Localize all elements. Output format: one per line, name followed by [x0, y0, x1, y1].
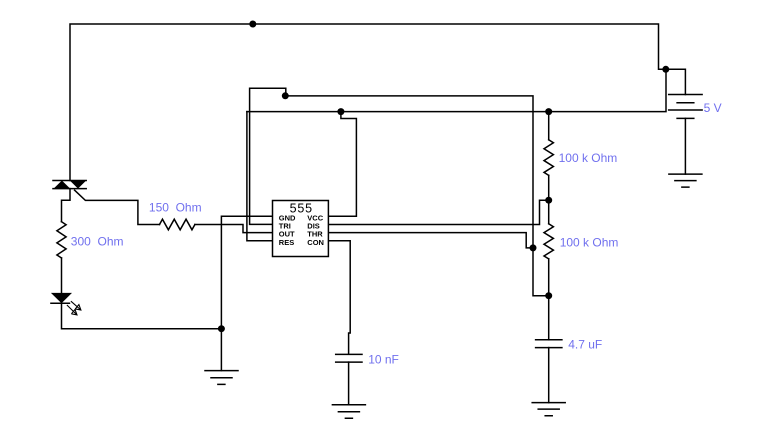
svg-text:CON: CON: [307, 238, 324, 247]
wire triac MT1 to 300 Ohm: [62, 189, 71, 222]
triac Q1 triangles: [54, 181, 87, 189]
junction dot VCC on rail: [337, 108, 344, 115]
wire RES pin to +5V rail: [247, 112, 273, 241]
svg-text:150 Ohm: 150 Ohm: [149, 201, 202, 215]
svg-text:4.7 uF: 4.7 uF: [568, 337, 602, 351]
junction dot THR-TRI node: [530, 244, 537, 251]
capacitor C1 10 nF: [336, 354, 362, 362]
resistor R 150 Ohm: [160, 219, 195, 230]
svg-text:300 Ohm: 300 Ohm: [71, 235, 124, 249]
wire triac gate to 150 Ohm to OUT pin: [75, 190, 160, 224]
wire 10nF plumbing: [348, 362, 350, 405]
wire R1 to R2: [548, 175, 550, 223]
svg-text:100 k Ohm: 100 k Ohm: [559, 151, 618, 165]
wire TRI pin up over top and down to cap node: [250, 88, 549, 296]
junction dot battery plus: [662, 66, 669, 73]
wire +5V rail to VCC/RES/100k/battery: [247, 69, 666, 111]
resistor R 300 Ohm: [57, 222, 66, 258]
junction dot R1-R2 DIS node: [545, 197, 552, 204]
wire LED cathode to ground node: [62, 303, 222, 329]
LED D1: [50, 293, 81, 315]
junction dot TRI route corner: [282, 92, 289, 99]
resistor R1 100 k Ohm: [544, 140, 553, 176]
wire 150 Ohm to OUT pin: [195, 225, 273, 233]
wire DIS pin to R1-R2 node: [328, 200, 548, 224]
ground under LED node: [205, 371, 238, 385]
wire 4.7uF to ground: [548, 348, 550, 403]
svg-text:10 nF: 10 nF: [368, 352, 399, 366]
ground under 10nF: [332, 405, 365, 419]
junction dot top rail: [249, 21, 256, 28]
svg-text:100 k Ohm: 100 k Ohm: [560, 235, 619, 249]
capacitor C2 4.7 uF: [536, 340, 562, 348]
ground under battery: [669, 174, 702, 187]
svg-text:RES: RES: [279, 238, 294, 247]
wire R2 to 4.7uF: [548, 259, 550, 340]
wire +V top rail from triac to battery: [70, 24, 685, 181]
ground under 4.7uF: [532, 403, 565, 416]
wire 300 Ohm to LED: [61, 258, 63, 293]
wire THR pin to cap node: [328, 233, 533, 248]
wire battery minus to ground: [684, 118, 686, 174]
resistor R2 100 k Ohm: [544, 224, 553, 259]
junction dot R2-C2 node: [545, 292, 552, 299]
junction dot LED-GND node: [218, 325, 225, 332]
wire rail to 100k R1: [548, 112, 550, 140]
battery V1 plates: [669, 95, 702, 119]
triac bars: [53, 181, 86, 189]
svg-text:5 V: 5 V: [704, 101, 722, 115]
wire VCC pin to +5V rail: [328, 112, 356, 217]
junction dot R1 top on rail: [545, 108, 552, 115]
wire GND pin down to ground: [221, 216, 272, 370]
wire CON pin down to 10nF: [328, 241, 350, 354]
IC U1 555 box: [273, 201, 329, 257]
